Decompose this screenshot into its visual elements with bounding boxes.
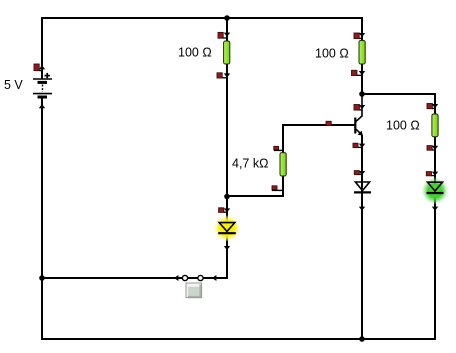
svg-text:100 Ω: 100 Ω [315,47,349,61]
switch S1 contact left [182,275,187,280]
current flag above diode D1 [354,171,365,176]
diode D1 [354,182,371,192]
current arrow battery bottom [39,104,45,108]
current flag R1 bottom [217,73,230,78]
current flag above green LED [426,172,438,176]
current flag R4 bottom [272,186,283,191]
current flag R1 top [218,32,230,38]
junction node E resistor tap [224,194,230,200]
wire 4.7k bottom lead [227,176,283,196]
LED D2 yellow [218,223,236,234]
LED D3 green glow [421,177,449,205]
svg-text:4,7 kΩ: 4,7 kΩ [232,157,268,171]
wire top rail [41,17,363,19]
junction node B collector split [359,91,365,97]
battery B1 5V [33,73,52,97]
current flag R2 bottom [352,70,366,75]
wire R1 branch [226,18,228,196]
wire right link [361,93,436,95]
wire emitter run [361,135,363,339]
current flag R2 top [354,33,365,39]
switch S1 button cap [186,283,203,299]
current flag battery top [34,64,45,71]
wire bottom rail [41,338,436,340]
current flag R3 top [427,104,438,109]
current arrow below yellow LED [224,246,230,250]
junction node A top rail [224,15,230,21]
LED D2 yellow glow [214,215,241,242]
current arrow switch right [212,275,216,281]
resistor R3 100 ohm [432,114,438,137]
wire collector lead [356,94,362,122]
current arrow below diode D1 [359,207,365,211]
junction node C switch row [39,275,45,281]
resistor R2 100 ohm [359,41,365,65]
wire left column [41,97,43,340]
wire battery top lead [41,17,43,79]
resistor R1 100 ohm [224,41,230,64]
current arrow switch left [174,275,178,281]
transistor Q1 [355,118,363,136]
svg-text:5 V: 5 V [4,78,23,92]
current flag base wire [326,121,331,125]
LED D3 green [427,182,444,193]
current flag R4 top [274,146,283,150]
current flag emitter [353,143,365,148]
svg-text:100 Ω: 100 Ω [386,119,420,133]
wire R2 branch [361,17,363,94]
svg-text:100 Ω: 100 Ω [178,46,212,60]
current flag below R3 [427,146,438,151]
resistor R4 4.7k [280,153,286,176]
switch S1 contact right [198,275,203,280]
wire yellow LED branch [226,196,228,279]
wire 4.7k top lead / base wire [283,125,355,153]
wire R3 branch [434,94,436,340]
current arrow below green LED [432,207,438,211]
current flag collector [354,105,365,111]
wire switch row [42,277,228,279]
junction node D bottom rail [359,336,365,342]
current flag above yellow LED [219,208,231,213]
